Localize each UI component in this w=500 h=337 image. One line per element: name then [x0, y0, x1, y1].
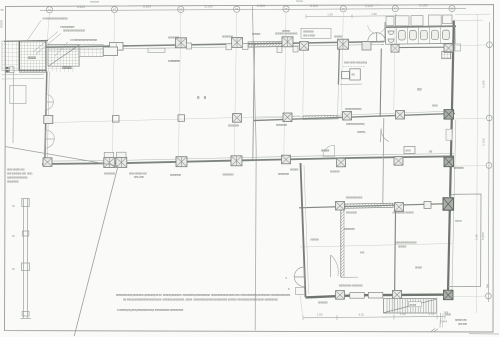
middle wall hatched part	[303, 115, 338, 119]
svg-text:8888888 888888888: 8888888 888888888	[275, 32, 298, 36]
door arc on x342 wall bottom	[330, 255, 332, 277]
svg-text:8 88888(88((888(8888888888(8 8: 8 88888(88((888(8888888888(8 8888888888 …	[117, 308, 184, 312]
svg-text:88((88888): 88((88888)	[7, 180, 19, 184]
svg-text:88888888: 88888888	[222, 35, 234, 39]
sub dimension labels	[327, 12, 377, 16]
svg-text:X5: X5	[284, 7, 288, 11]
faint vertical line right margin	[477, 14, 478, 313]
entrance label	[27, 55, 40, 60]
svg-text:888888: 888888	[252, 32, 261, 36]
svg-text:88: 88	[12, 235, 15, 238]
svg-text:5.100: 5.100	[143, 5, 151, 9]
door arcs band B	[323, 145, 335, 156]
svg-text:88: 88	[12, 205, 15, 208]
terrace lines below entrance	[2, 73, 45, 76]
svg-text:88.888(88(888888888888888(88.: 88.888(88(888888888888888(88. 88888(88(8…	[123, 298, 278, 302]
svg-text:1.10: 1.10	[429, 312, 435, 316]
right grid bubbles	[486, 42, 493, 299]
svg-text:888888: 888888	[290, 168, 299, 172]
right wall window gap band B	[446, 129, 452, 140]
column grid3b	[231, 156, 242, 166]
svg-text:888888888 88888888: 888888888 88888888	[339, 284, 363, 288]
svg-text:888888888888: 888888888888	[346, 196, 363, 200]
open squares on toilet south wall	[391, 44, 399, 52]
svg-text:888: 888	[487, 283, 490, 288]
stall outline	[385, 26, 455, 44]
svg-text:1.50: 1.50	[327, 12, 333, 16]
svg-text:8888888: 8888888	[454, 166, 464, 170]
top wall	[47, 42, 385, 50]
svg-text:8888888: 8888888	[318, 301, 328, 305]
column grid2 top	[176, 38, 187, 48]
west hatched strip	[2, 41, 19, 71]
stair hatch B	[79, 45, 103, 57]
twin columns grid1b	[104, 158, 115, 168]
svg-text:X4: X4	[235, 7, 239, 11]
leader lines top-left	[28, 21, 69, 57]
svg-text:1.50: 1.50	[317, 313, 323, 317]
band B divider	[383, 118, 384, 204]
svg-text:8888888: 8888888	[330, 170, 340, 174]
page edge marks	[90, 1, 99, 3]
pantry unit boxes	[341, 72, 349, 79]
svg-text:X3: X3	[179, 7, 183, 11]
svg-text:848: 848	[360, 251, 365, 255]
toilet north wall dark	[386, 26, 456, 27]
column grid3 top	[232, 37, 243, 47]
door jamb box	[362, 42, 371, 50]
svg-text:1.50: 1.50	[371, 12, 377, 16]
svg-text:888888: 888888	[321, 149, 330, 153]
column grid6b	[337, 158, 346, 167]
general notes	[116, 293, 291, 312]
svg-text:88888888: 88888888	[276, 123, 288, 127]
svg-text:8: 8	[286, 276, 288, 280]
svg-text:8 8 88888888888888888: 8 8 88888888888888888	[70, 38, 98, 42]
entrance block left edge dark	[18, 41, 20, 71]
stair diagonal	[49, 45, 80, 66]
dim drop lines	[300, 295, 437, 318]
corner column left bottom	[43, 158, 52, 167]
svg-text:888-888: 888-888	[458, 322, 468, 326]
svg-text:88888888: 88888888	[278, 172, 290, 176]
svg-text:8888888888888888: 8888888888888888	[63, 29, 85, 33]
bottom wall lower block	[306, 295, 454, 298]
twin column caps	[104, 152, 114, 157]
stair hatch lower	[48, 66, 75, 72]
svg-text:5.100: 5.100	[205, 4, 213, 8]
upper cabinets row	[386, 15, 452, 26]
stair hatch A	[48, 45, 79, 67]
svg-text:3.185: 3.185	[482, 80, 486, 88]
column grid7b	[394, 157, 403, 166]
bottom wall of upper block	[42, 154, 454, 165]
svg-text:X8: X8	[450, 6, 454, 10]
grid bubble labels	[48, 6, 454, 11]
svg-text:888888: 888888	[62, 66, 72, 70]
west site line	[12, 72, 15, 144]
column grid8b	[444, 157, 454, 167]
svg-text:5.880: 5.880	[481, 232, 485, 240]
svg-text:88: 88	[429, 150, 433, 154]
left wall lower block	[301, 163, 306, 297]
svg-text:(8888888(88888): (8888888(88888)	[346, 122, 365, 126]
svg-text:8888: 8888	[445, 313, 451, 317]
kitchen/room divider v2	[380, 49, 381, 118]
svg-text:X7: X7	[394, 7, 398, 11]
faint grid line lower block	[300, 244, 452, 248]
middle wall kitchen band	[253, 111, 455, 121]
wall at fold x254	[253, 45, 255, 161]
svg-text:88: 88	[12, 268, 15, 271]
right dimension line	[488, 22, 489, 302]
steep boundary diagonal	[74, 166, 118, 336]
lower block divider	[395, 205, 396, 291]
small plan rect outside left wall	[10, 86, 26, 104]
svg-text:888888: 888888	[334, 35, 343, 39]
svg-text:888: 888	[417, 88, 422, 92]
small boxes left	[6, 67, 9, 69]
X88 box	[404, 147, 415, 154]
svg-text:5.100: 5.100	[77, 5, 85, 9]
short return line	[341, 276, 358, 278]
svg-text:8: 8	[288, 287, 290, 291]
svg-text:888888: 888888	[398, 245, 407, 249]
svg-text:8888: 8888	[432, 104, 438, 108]
column grid4 top	[282, 37, 293, 47]
svg-text:2.150: 2.150	[481, 138, 485, 146]
svg-text:8888: 8888	[455, 219, 462, 223]
svg-text:X6: X6	[342, 7, 346, 11]
svg-text:888888888888: 888888888888	[345, 107, 362, 111]
svg-text:1.50: 1.50	[400, 312, 406, 316]
svg-text:888+888: 888+888	[134, 175, 144, 179]
svg-text:88888888: 88888888	[228, 124, 240, 128]
left wall big room	[45, 72, 50, 164]
toilet fixtures outlines	[388, 30, 449, 43]
svg-text:88888888: 88888888	[168, 36, 180, 40]
svg-text:X1: X1	[48, 8, 52, 12]
faint middle horizontal grid line big room	[48, 116, 300, 123]
svg-text:88888888: 88888888	[104, 172, 116, 176]
svg-text:8-8888888: 8-8888888	[168, 59, 180, 63]
svg-text:88888888: 88888888	[344, 227, 356, 231]
column grid2b	[176, 157, 187, 167]
window boxes bottom wall lower block	[350, 293, 365, 299]
column kitchen top	[300, 42, 309, 51]
svg-text:888888: 888888	[310, 238, 319, 242]
svg-text:888888888 888888: 888888888 888888	[393, 211, 415, 215]
retaining wall note	[7, 168, 33, 184]
entrance bottom tick row	[20, 70, 47, 72]
white box with border	[103, 47, 117, 55]
svg-text:88888: 88888	[415, 266, 422, 270]
faint vertical grid lines	[47, 12, 452, 160]
dashed top of unit	[343, 65, 365, 67]
svg-text:888: 888	[406, 149, 411, 153]
stall dividers	[397, 27, 441, 43]
svg-text:4.100: 4.100	[365, 4, 373, 8]
shallow boundary line	[5, 147, 118, 167]
right connector lines	[449, 45, 487, 297]
top dimension labels 1,100	[77, 4, 428, 9]
svg-text:888-8-8888: 888-8-8888	[303, 34, 316, 38]
svg-text:8.444: 8.444	[440, 320, 447, 324]
svg-text:1.08: 1.08	[475, 234, 479, 240]
svg-text:5.100: 5.100	[310, 4, 318, 8]
svg-text:88888888: 88888888	[223, 173, 235, 177]
svg-text:8 88888888888888888: 8 88888888888888888	[43, 17, 69, 21]
right wall	[448, 21, 454, 293]
small hatched box below toilets	[442, 51, 451, 58]
svg-text:88: 88	[352, 73, 356, 77]
svg-text:88888888888(88888881(888888)88: 88888888888(88888881(888888)88.88. 88888…	[116, 293, 291, 297]
fold line	[252, 5, 256, 330]
entrance block	[20, 41, 47, 71]
svg-text:8888: 8888	[410, 303, 417, 307]
svg-text:3.10: 3.10	[358, 312, 364, 316]
second wall lower block (hatched)	[299, 203, 450, 208]
window box on top wall left	[110, 43, 124, 51]
porch dim drop lines	[439, 313, 442, 328]
svg-text:88888888: 88888888	[346, 211, 358, 215]
toilet south wall	[394, 46, 448, 48]
faint pantry grid line	[303, 45, 304, 118]
annotation box above wall left of arcs	[301, 28, 331, 38]
svg-text:8 8: 8 8	[197, 95, 208, 100]
entrance area top line	[4, 40, 48, 43]
svg-text:5.100: 5.100	[257, 4, 265, 8]
kitchen wall v1	[338, 45, 339, 85]
sub dimension line	[306, 15, 396, 18]
svg-text:5.100: 5.100	[420, 4, 428, 8]
right dim rotated labels	[481, 80, 490, 288]
grid bubble X1	[46, 5, 455, 13]
band B door on divider wall	[381, 129, 389, 142]
svg-text:8888 8888 888(8888): 8888 8888 888(8888)	[344, 61, 367, 65]
svg-text:88888888: 88888888	[170, 173, 182, 177]
top dimension line	[40, 8, 466, 10]
svg-text:(88888): (88888)	[357, 130, 366, 134]
top wall hatched segment	[248, 41, 288, 47]
faint lines from toilet to right border	[455, 13, 490, 16]
svg-text:X2: X2	[113, 8, 117, 12]
lower block hatched wall x342	[341, 210, 345, 277]
svg-text:88888: 88888	[28, 56, 37, 60]
column left wall middle	[44, 116, 53, 124]
entry double door arcs (M)	[368, 33, 377, 42]
column grid4b	[282, 155, 291, 164]
